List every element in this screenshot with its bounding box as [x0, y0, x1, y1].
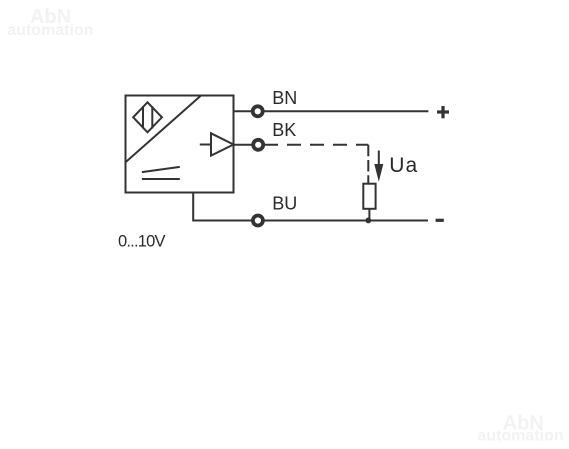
op-amp A1: [200, 133, 234, 155]
wire resistor to BU line: [368, 209, 370, 221]
wire BK: [234, 144, 253, 146]
watermark AbN automation top-left: [7, 6, 93, 39]
minus sign: [436, 219, 444, 222]
svg-text:0...10V: 0...10V: [118, 233, 165, 251]
wire BU to minus: [264, 220, 428, 222]
svg-text:BU: BU: [272, 194, 297, 214]
dashed wire vertical to load: [367, 145, 369, 184]
inductive sensor symbol (diamond): [133, 102, 162, 132]
terminal BU: [253, 216, 263, 226]
terminal BN: [253, 106, 263, 116]
wire BN: [234, 110, 253, 112]
svg-text:automation: automation: [7, 22, 93, 39]
svg-text:BN: BN: [272, 88, 297, 108]
adjustment symbol: [142, 167, 180, 179]
svg-text:BK: BK: [272, 120, 296, 140]
arrow Ua: [374, 151, 383, 182]
junction node: [365, 218, 371, 224]
dashed wire BK to load: [264, 144, 368, 146]
sensor box U1: [126, 96, 234, 193]
resistor load Ua: [363, 184, 375, 209]
watermark AbN automation bottom-right: [477, 413, 563, 445]
svg-text:Ua: Ua: [389, 154, 418, 177]
diagonal separator: [126, 96, 202, 163]
plus sign: [437, 106, 449, 118]
terminal BK: [253, 140, 263, 150]
wire BN to plus: [264, 110, 429, 112]
svg-text:automation: automation: [477, 428, 563, 445]
wire box to BU: [193, 193, 252, 221]
